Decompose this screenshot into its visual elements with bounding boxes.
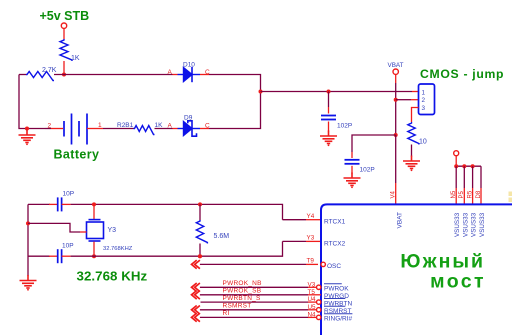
wire crystal case <box>28 223 80 232</box>
svg-text:A: A <box>168 69 173 76</box>
svg-text:Южный: Южный <box>400 251 485 273</box>
svg-text:VSUS33: VSUS33 <box>471 212 478 237</box>
battery BT1 <box>64 114 87 145</box>
junction bus 3 <box>471 164 475 168</box>
pin stub VBAT chip <box>395 183 397 204</box>
wire R2B1 to D9 <box>155 128 173 130</box>
wire VSUS33 pin3 <box>472 166 474 188</box>
pin stub crystal bottom <box>93 242 95 257</box>
wire rail to D10 anode <box>54 74 173 76</box>
svg-text:RI: RI <box>223 310 230 317</box>
ground crystal <box>20 275 37 288</box>
pin stub crystal case <box>80 231 87 233</box>
junction bus 2 <box>462 164 466 168</box>
svg-text:Y3: Y3 <box>307 235 315 242</box>
junction crystal top <box>92 202 96 206</box>
svg-text:VSUS33: VSUS33 <box>479 212 486 237</box>
wire OSC <box>200 263 306 265</box>
svg-text:RTCX1: RTCX1 <box>324 219 346 226</box>
wire C1 to gnd <box>328 122 330 132</box>
jumper J1 CMOS <box>419 84 435 115</box>
pin stub N4 <box>308 316 317 318</box>
ground C2 <box>344 173 361 186</box>
pin stub crystal top <box>93 204 95 219</box>
wire VBAT down <box>395 74 397 83</box>
svg-text:U4: U4 <box>308 296 317 303</box>
svg-text:U5: U5 <box>308 304 317 311</box>
svg-text:CMOS - jump: CMOS - jump <box>420 67 504 81</box>
svg-text:PWRBTN_S: PWRBTN_S <box>223 295 262 302</box>
crystal Y3 <box>87 220 104 241</box>
wire C1 up <box>328 92 330 108</box>
wire VBAT to chip <box>395 135 397 183</box>
net stub marks (edge) <box>509 192 512 197</box>
pin stub jumper 2 <box>411 99 419 101</box>
wire C1 red <box>328 107 330 114</box>
pin stub C4 left <box>49 255 58 257</box>
capacitor C4 10P <box>58 249 62 263</box>
junction cap C1 <box>327 90 331 94</box>
wire R to gnd <box>411 145 413 157</box>
capacitor C1 102P <box>321 116 336 120</box>
wire R1 to rail <box>63 61 65 75</box>
pin stub V3 <box>308 286 317 288</box>
terminal VBAT <box>393 69 398 74</box>
svg-text:D8: D8 <box>476 190 482 198</box>
svg-text:D9: D9 <box>184 115 193 122</box>
junction cap C2 branch <box>394 133 398 137</box>
offpage connector RSMRST <box>192 306 200 315</box>
svg-text:3: 3 <box>422 105 426 112</box>
ground C1 <box>320 131 337 144</box>
junction rail/R1 <box>62 73 66 77</box>
pin stub Y3pin <box>306 240 321 242</box>
svg-text:10: 10 <box>419 139 427 146</box>
wire rail bottom left <box>28 255 50 257</box>
junction crystal case <box>26 221 30 225</box>
diode D9 (schottky) <box>178 121 201 136</box>
svg-text:RSMRST: RSMRST <box>223 303 252 310</box>
junction jumper pin2 <box>394 98 398 102</box>
wire RTCX2 <box>283 240 307 242</box>
wire battery to R2B1 <box>103 128 134 130</box>
junction gnd/battery <box>25 127 29 131</box>
pin stub jumper 3 <box>412 108 419 115</box>
svg-text:PWROK_SB: PWROK_SB <box>223 288 262 295</box>
svg-text:N5: N5 <box>451 190 457 198</box>
wire 5.6M bottom <box>199 244 201 257</box>
wire VSUS33 pin4 <box>480 166 482 188</box>
svg-text:1K: 1K <box>71 55 80 62</box>
svg-text:A: A <box>168 123 173 130</box>
offpage connector RI <box>192 313 200 322</box>
pin stub U5 <box>308 309 317 311</box>
junction R 5.6M bottom <box>198 254 202 258</box>
ground R10 <box>403 156 420 169</box>
svg-text:VSUS33: VSUS33 <box>454 212 461 237</box>
svg-text:R5: R5 <box>467 190 473 198</box>
svg-text:R2B1: R2B1 <box>117 122 134 129</box>
resistor 1K (pullup) <box>60 39 72 61</box>
overline RSMRST <box>324 305 345 307</box>
svg-text:OSC: OSC <box>327 263 341 270</box>
pin bubble V3 <box>317 285 321 289</box>
svg-text:мост: мост <box>430 271 486 293</box>
svg-text:VBAT: VBAT <box>388 62 404 69</box>
svg-text:V4: V4 <box>391 190 397 198</box>
wire VSUS33 down <box>455 156 457 166</box>
capacitor C3 10P <box>58 197 62 211</box>
wire +5v to R1 <box>63 28 65 39</box>
pin stub C4 right <box>62 255 71 257</box>
svg-text:Y3: Y3 <box>108 227 117 234</box>
svg-text:+5v STB: +5v STB <box>40 9 90 23</box>
svg-text:VSUS33: VSUS33 <box>462 212 469 237</box>
pin bubble U4 <box>317 300 321 304</box>
wire D10 to vertical <box>209 75 261 93</box>
wire PWROK_SB <box>200 294 308 296</box>
svg-text:RTCX2: RTCX2 <box>324 241 346 248</box>
pin stub D9 cathode <box>200 128 209 130</box>
svg-text:2: 2 <box>422 97 426 104</box>
wire rail to jumper pin1 <box>261 91 413 93</box>
resistor 5.6M <box>196 220 207 243</box>
wire left drop <box>19 75 45 129</box>
pin stub D9 anode <box>173 128 178 130</box>
ground battery <box>19 130 36 143</box>
svg-text:T9: T9 <box>307 258 315 265</box>
wire VSUS33 bus <box>456 165 481 167</box>
wire VSUS33 pin2 <box>463 166 465 188</box>
svg-text:V3: V3 <box>308 281 316 288</box>
overline RING/RI# <box>324 313 352 315</box>
wire D9 to vertical <box>209 92 261 129</box>
capacitor C2 102P <box>345 160 360 164</box>
pin stub U4 <box>308 301 317 303</box>
wire pin3 to R <box>411 115 413 123</box>
svg-text:Battery: Battery <box>54 148 100 162</box>
pin stub Y4 <box>306 219 321 221</box>
wire PWROK_NB <box>200 286 308 288</box>
svg-text:102P: 102P <box>337 123 352 130</box>
offpage connector PWROK_NB <box>192 283 200 292</box>
pin stub D10 cathode <box>200 74 209 76</box>
svg-text:Y4: Y4 <box>307 213 315 220</box>
svg-text:10P: 10P <box>62 243 74 250</box>
wire rail top left <box>28 203 50 205</box>
wire C2 red <box>351 152 353 158</box>
svg-text:N4: N4 <box>308 311 317 318</box>
pin bubble U5 <box>317 308 321 312</box>
svg-text:P5: P5 <box>459 190 465 198</box>
offpage connector PWROK_SB <box>192 291 200 300</box>
svg-text:5.6M: 5.6M <box>214 233 230 240</box>
wire rail bottom right <box>71 241 283 256</box>
junction R 5.6M top <box>198 202 202 206</box>
svg-text:PWROK_NB: PWROK_NB <box>223 280 262 287</box>
pin stub battery right <box>87 128 103 130</box>
svg-text:102P: 102P <box>360 167 375 174</box>
wire VSUS33 pin1 <box>455 166 457 188</box>
svg-text:2.7K: 2.7K <box>42 67 57 74</box>
offpage connector OSC <box>192 260 200 269</box>
wire rail top right <box>71 204 283 219</box>
wire corner to battery <box>45 128 51 130</box>
wire crystal left vertical <box>27 204 29 276</box>
svg-text:VBAT: VBAT <box>397 212 404 229</box>
svg-text:32.768KHZ: 32.768KHZ <box>103 246 133 252</box>
svg-text:PWROK: PWROK <box>324 286 349 293</box>
pin stub battery left <box>51 128 63 130</box>
pin stub C3 right <box>62 203 71 205</box>
svg-text:D10: D10 <box>183 62 195 69</box>
junction bus 1 <box>454 164 458 168</box>
junction crystal bottom <box>92 254 96 258</box>
wire RTCX1 <box>283 219 307 221</box>
pin stub jumper 1 <box>412 91 419 93</box>
terminal +5v STB <box>61 23 66 28</box>
terminal VSUS33 <box>454 151 459 156</box>
wire 5.6M top <box>199 204 201 220</box>
pin stub C3 left <box>49 203 58 205</box>
wire RSMRST <box>200 309 308 311</box>
junction OSC rail <box>198 254 202 258</box>
diode D10 <box>178 67 201 82</box>
resistor 2.7K <box>26 72 54 81</box>
pin stub T9 <box>306 263 318 265</box>
wire RI <box>200 316 308 318</box>
wire rail left segment <box>19 74 26 76</box>
wire C2 branch <box>352 135 396 152</box>
wire pin2 <box>396 99 411 101</box>
junction diode rail <box>259 90 263 94</box>
overline PWROK <box>324 283 342 285</box>
svg-text:RING/RI#: RING/RI# <box>324 316 353 323</box>
pin bubble N4 <box>317 315 321 319</box>
wire C2 to gnd <box>351 166 353 174</box>
svg-text:T5: T5 <box>308 289 316 296</box>
resistor R2B1 <box>134 126 155 135</box>
pin stub D10 anode <box>173 74 178 76</box>
svg-text:10P: 10P <box>63 191 75 198</box>
wire PWRBTN_S <box>201 301 309 303</box>
svg-text:32.768 KHz: 32.768 KHz <box>77 269 148 284</box>
IC south bridge outline <box>321 204 512 335</box>
wire VBAT vertical <box>395 83 397 135</box>
overline PWRBTN <box>324 298 345 300</box>
pin stub T5 <box>308 294 321 296</box>
pin bubble OSC <box>321 262 325 266</box>
svg-text:1: 1 <box>422 89 426 96</box>
resistor 10 <box>408 122 419 145</box>
